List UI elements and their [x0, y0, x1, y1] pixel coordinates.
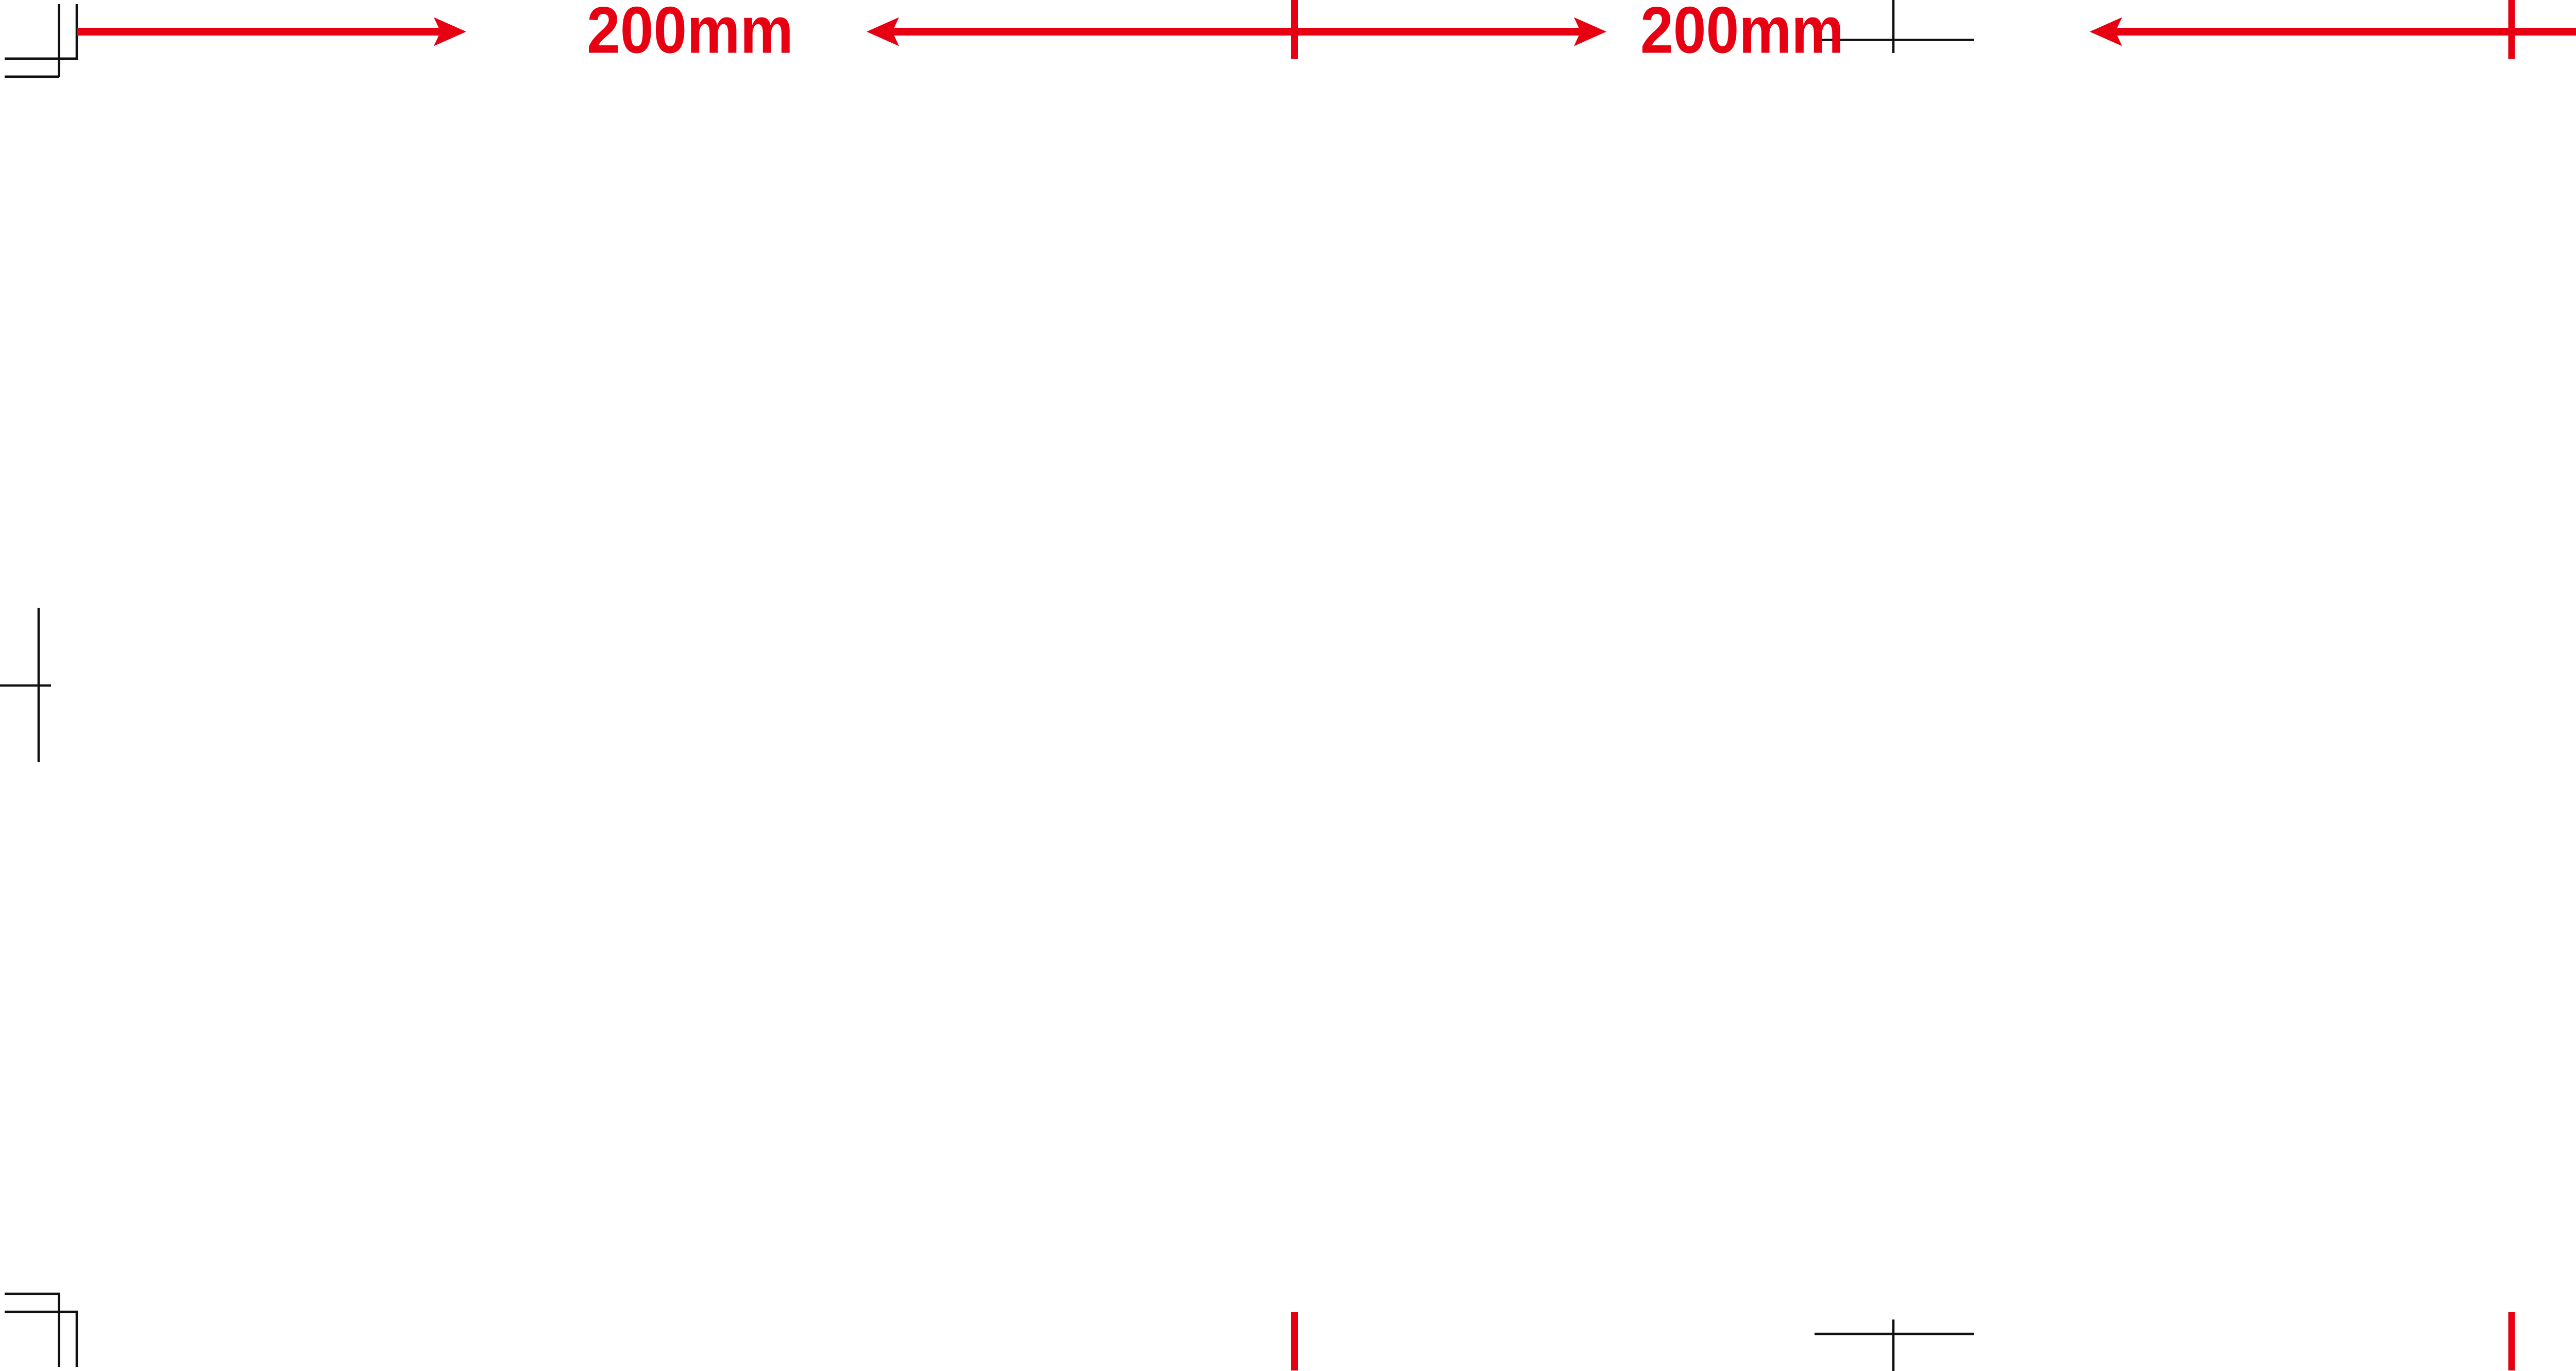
dimension arrow 3 head left — [2090, 18, 2122, 46]
trim mark top-left outer vertical — [58, 4, 60, 77]
dimension arrow 3 shaft — [2115, 28, 2576, 36]
dimension arrow 1 shaft — [77, 28, 440, 36]
center mark top horizontal — [1815, 39, 1974, 41]
center mark left vertical — [38, 608, 40, 762]
dimension arrow 2 head right — [1574, 18, 1606, 46]
trim mark bottom-left lower horizontal — [5, 1311, 78, 1313]
dimension arrow 2 shaft — [892, 28, 1581, 36]
trim mark top-left inner vertical — [76, 4, 78, 60]
trim mark bottom-left upper horizontal — [5, 1293, 60, 1295]
svg-text:200mm: 200mm — [587, 0, 793, 67]
center mark bottom vertical — [1892, 1319, 1895, 1371]
fold tick top 1 — [1291, 0, 1298, 59]
dimension arrow 1 head right — [434, 18, 466, 46]
fold tick top 2 — [2509, 0, 2515, 59]
fold tick bottom 2 — [2509, 1312, 2515, 1370]
trim mark bottom-left inner vertical — [76, 1311, 78, 1367]
fold tick bottom 1 — [1291, 1312, 1298, 1370]
center mark left horizontal — [0, 684, 51, 687]
dimension arrow 2 head left — [867, 18, 899, 46]
trim mark top-left upper horizontal — [5, 58, 78, 60]
svg-text:200mm: 200mm — [1640, 0, 1844, 67]
trim mark top-left lower horizontal — [5, 76, 59, 78]
trim mark bottom-left outer vertical — [58, 1294, 60, 1367]
center mark bottom horizontal — [1815, 1333, 1974, 1335]
center mark top vertical — [1892, 0, 1895, 53]
